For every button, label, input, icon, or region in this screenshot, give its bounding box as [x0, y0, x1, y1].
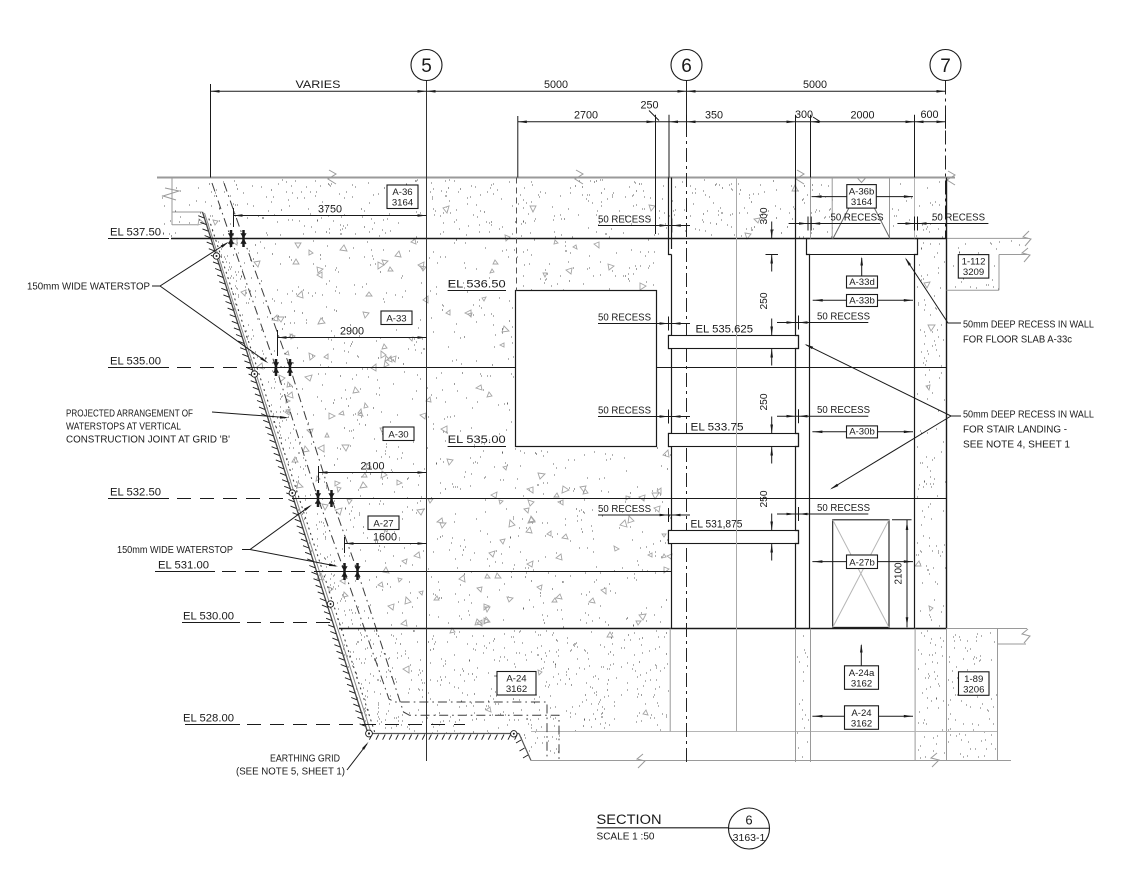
slope hatch ticks — [198, 216, 365, 727]
svg-text:250: 250 — [759, 393, 770, 410]
dim row1 arrows — [211, 90, 220, 93]
ground surface line — [157, 177, 955, 179]
dim row2 ext 796 — [795, 116, 797, 178]
EL 528.00 dash line — [185, 724, 240, 726]
excavation slope main line — [203, 212, 369, 734]
svg-text:A-24: A-24 — [506, 674, 527, 685]
svg-text:50 RECESS: 50 RECESS — [598, 504, 651, 515]
svg-text:50mm DEEP RECESS IN WALL: 50mm DEEP RECESS IN WALL — [963, 320, 1094, 331]
grid line 5 — [426, 81, 428, 762]
svg-text:A-33b: A-33b — [849, 295, 875, 306]
projected waterstop line D1 — [212, 183, 547, 760]
title underline — [597, 827, 729, 829]
tag A-24a 3162 — [845, 666, 879, 690]
dim 300 hook — [813, 117, 820, 122]
dim 2100 — [319, 472, 427, 474]
svg-text:FOR FLOOR SLAB A-33c: FOR FLOOR SLAB A-33c — [963, 335, 1072, 346]
A-27b opening rectangle — [833, 520, 889, 628]
svg-text:A-30: A-30 — [388, 429, 408, 440]
break on EL537.5 ext — [1023, 231, 1031, 246]
svg-text:SCALE 1 :50: SCALE 1 :50 — [597, 832, 655, 843]
dim 300 slab top — [771, 222, 773, 239]
joint circle at slope toe — [366, 730, 373, 737]
svg-text:A-27: A-27 — [373, 518, 393, 529]
grid bubble 6 — [671, 50, 702, 81]
svg-text:50 RECESS: 50 RECESS — [598, 215, 651, 226]
tag 1-112 3209 — [958, 255, 989, 279]
left broken edge vertical — [171, 178, 173, 226]
left bench line upper — [172, 211, 203, 213]
grid bubble 5 — [411, 50, 442, 81]
tag A-27b — [847, 555, 878, 569]
stair landing slab 3 — [669, 531, 799, 544]
tag A-36b 3164 — [847, 185, 877, 209]
EL 530.00 dash line — [182, 622, 240, 624]
dim arrows A-36b — [812, 196, 847, 198]
svg-text:EL 535.00: EL 535.00 — [110, 355, 161, 367]
leader A-33d up-arrow — [861, 258, 863, 276]
svg-text:300: 300 — [759, 207, 770, 224]
right wall B right face — [946, 178, 948, 629]
dim arrows A-27b — [812, 561, 846, 563]
svg-text:2900: 2900 — [340, 326, 364, 338]
beyond joint line in lower walls — [915, 731, 998, 733]
svg-text:50 RECESS: 50 RECESS — [817, 503, 870, 514]
dim 3750 — [234, 215, 427, 217]
soffit reference tick — [766, 254, 779, 256]
joint circle on slope 1 — [213, 253, 219, 259]
svg-text:250: 250 — [640, 100, 658, 112]
svg-text:SEE NOTE 4, SHEET 1: SEE NOTE 4, SHEET 1 — [963, 440, 1070, 451]
A-27b opening diagonals — [833, 520, 889, 628]
top floor slab soffit — [807, 254, 918, 256]
wall opening box — [516, 291, 657, 447]
stair landing slab 1 — [669, 336, 799, 349]
dim 250 leader hook — [649, 111, 659, 121]
leader note floor slab — [906, 259, 961, 323]
base slab top beyond — [531, 731, 998, 733]
svg-text:3162: 3162 — [851, 678, 872, 689]
svg-text:EL 528.00: EL 528.00 — [183, 712, 234, 724]
base step edge — [519, 734, 531, 761]
svg-text:150mm WIDE WATERSTOP: 150mm WIDE WATERSTOP — [117, 545, 233, 556]
svg-text:5000: 5000 — [544, 79, 568, 91]
tag A-33 — [381, 311, 412, 325]
tag A-33d — [847, 276, 878, 288]
dim row2 ext 517.8 — [517, 116, 519, 178]
svg-text:150mm WIDE WATERSTOP: 150mm WIDE WATERSTOP — [27, 282, 150, 293]
svg-text:1-112: 1-112 — [962, 257, 986, 268]
dim row2 ext 669 — [668, 116, 670, 178]
tag A-30b — [847, 426, 878, 438]
dim arrows A-33b — [813, 299, 847, 301]
break on upper stub — [1022, 248, 1030, 262]
middle wall upper left face — [669, 178, 672, 255]
dim arrows A-30b — [812, 431, 846, 433]
dim row2 ext 655.6 — [655, 116, 657, 234]
svg-text:3164: 3164 — [851, 197, 873, 208]
waterstop leader 1a — [152, 243, 227, 286]
right wall B left face — [914, 178, 916, 239]
svg-text:6: 6 — [745, 813, 752, 828]
tag A-24 3162 left — [497, 672, 536, 696]
svg-text:(SEE NOTE 5, SHEET 1): (SEE NOTE 5, SHEET 1) — [236, 767, 345, 778]
svg-text:3164: 3164 — [392, 198, 414, 209]
concrete stipple texture — [162, 180, 833, 237]
svg-text:250: 250 — [759, 490, 770, 507]
right wall A beyond below — [795, 629, 797, 763]
joint circle on slope 2 — [251, 371, 257, 377]
svg-text:1-89: 1-89 — [964, 674, 983, 685]
svg-text:A-33d: A-33d — [849, 277, 875, 288]
svg-text:EL 531.00: EL 531.00 — [158, 559, 209, 571]
svg-text:50 RECESS: 50 RECESS — [817, 405, 870, 416]
leader note stair landing lower — [832, 416, 952, 489]
dim row1 line — [211, 90, 946, 92]
svg-text:A-24a: A-24a — [849, 668, 875, 679]
tag A-27 — [368, 516, 399, 530]
svg-text:3750: 3750 — [318, 204, 342, 216]
base hatch ticks — [369, 735, 517, 740]
svg-text:3162: 3162 — [851, 718, 872, 729]
earthing grid leader — [347, 744, 367, 770]
waterstop symbol 8 — [356, 563, 359, 580]
right wall B beyond below — [946, 628, 948, 760]
EL 537.50 line gray extension — [947, 237, 1029, 239]
grid line 7 — [945, 81, 947, 239]
leader A-24a up-arrow — [860, 645, 862, 666]
svg-text:EARTHING GRID: EARTHING GRID — [270, 754, 340, 765]
ground break symbol 2 — [575, 170, 583, 184]
svg-text:2100: 2100 — [360, 461, 384, 473]
stair edge beyond — [736, 178, 738, 732]
break on base bottom 2 — [931, 753, 939, 767]
dim row2 ext 811 — [810, 116, 812, 178]
svg-text:5000: 5000 — [803, 79, 827, 91]
upper right stub outline — [999, 254, 1027, 256]
hidden edge above opening — [516, 178, 518, 291]
svg-text:600: 600 — [920, 109, 938, 121]
svg-text:50 RECESS: 50 RECESS — [598, 313, 651, 324]
svg-text:A-33: A-33 — [386, 313, 406, 324]
svg-text:50mm DEEP RECESS IN WALL: 50mm DEEP RECESS IN WALL — [963, 410, 1094, 421]
EL 530.00 structural line — [339, 628, 947, 630]
svg-text:50 RECESS: 50 RECESS — [831, 213, 884, 224]
lower right stub outline — [947, 628, 1028, 630]
title circle — [729, 808, 770, 849]
middle wall upper right face — [671, 178, 673, 250]
EL 537.50 line — [108, 238, 169, 240]
base edge line — [368, 733, 519, 735]
tag A-24 3162 right — [845, 706, 879, 730]
waterstop leader 1b — [160, 286, 266, 362]
svg-text:A-36b: A-36b — [849, 187, 875, 198]
svg-text:50 RECESS: 50 RECESS — [817, 312, 870, 323]
ground break symbol 3 — [796, 170, 804, 184]
tag A-36 3164 — [387, 185, 418, 209]
waterstop symbol 5 — [317, 490, 320, 507]
svg-text:EL 530.00: EL 530.00 — [183, 610, 234, 622]
svg-text:2000: 2000 — [850, 110, 874, 122]
left edge break symbol — [163, 188, 179, 200]
waterstop symbol 6 — [330, 490, 333, 507]
break on base bottom 1 — [637, 754, 645, 768]
pocket edge beyond left — [831, 178, 833, 239]
dim 2100 opening — [906, 520, 908, 628]
svg-text:EL 533.75: EL 533.75 — [691, 422, 744, 434]
middle wall edge beyond below — [669, 629, 671, 732]
waterstop symbol 2 — [242, 230, 245, 247]
dim 2900 — [278, 337, 427, 339]
joint circle on slope 3 — [327, 601, 333, 607]
pocket splay left — [833, 208, 849, 239]
waterstop leader 2a — [242, 506, 310, 550]
svg-text:3163-1: 3163-1 — [733, 832, 766, 844]
svg-text:A-27b: A-27b — [849, 557, 875, 568]
projected waterstop line D2 — [224, 183, 559, 760]
svg-text:3206: 3206 — [963, 684, 984, 695]
ground break symbol 4 — [947, 171, 955, 185]
dim row1 ext left — [210, 84, 212, 178]
svg-text:2700: 2700 — [574, 110, 598, 122]
dim row2 ticks — [655, 115, 657, 129]
pocket splay right — [874, 208, 890, 239]
svg-text:7: 7 — [940, 56, 951, 77]
right wall A left face with recesses — [796, 178, 799, 629]
waterstop symbol 4 — [289, 359, 292, 376]
svg-text:EL 532.50: EL 532.50 — [110, 486, 161, 498]
left bench line lower — [172, 224, 198, 226]
grid bubble 7 — [930, 50, 961, 81]
svg-text:EL 537.50: EL 537.50 — [110, 226, 161, 238]
svg-text:250: 250 — [759, 292, 770, 309]
waterstop symbol 1 — [230, 230, 233, 247]
break on lower stub — [1022, 629, 1030, 643]
svg-text:A-36: A-36 — [392, 187, 412, 198]
svg-text:A-30b: A-30b — [849, 427, 875, 438]
pocket edge beyond right — [889, 178, 891, 239]
dotted line along slope — [209, 219, 375, 732]
middle wall face with landing recesses — [669, 255, 672, 629]
svg-text:50 RECESS: 50 RECESS — [932, 213, 985, 224]
waterstop leader 2b — [250, 550, 336, 567]
svg-text:VARIES: VARIES — [296, 79, 341, 91]
right lower wall edge beyond — [997, 629, 999, 761]
svg-text:A-24: A-24 — [851, 708, 872, 719]
excavation slope second line — [205, 213, 372, 734]
right wall A right face — [810, 178, 812, 239]
svg-text:EL 531,875: EL 531,875 — [691, 519, 743, 531]
svg-text:FOR STAIR LANDING -: FOR STAIR LANDING - — [963, 425, 1067, 436]
waterstop symbol 3 — [275, 359, 278, 376]
svg-text:EL 535.625: EL 535.625 — [696, 324, 754, 336]
svg-text:CONSTRUCTION JOINT AT GRID 'B': CONSTRUCTION JOINT AT GRID 'B' — [66, 435, 230, 446]
stair landing slab 2 — [669, 434, 799, 447]
dim row2 ext 914 — [914, 116, 916, 178]
EL 531.00 line — [155, 571, 215, 573]
svg-text:350: 350 — [705, 110, 723, 122]
svg-text:300: 300 — [795, 109, 813, 121]
svg-text:2100: 2100 — [894, 562, 905, 584]
projected arrangement leader — [212, 412, 286, 418]
tag 1-89 3206 — [959, 672, 990, 696]
dim arrows A-24 — [812, 715, 844, 717]
EL 532.50 line — [108, 498, 169, 500]
dim row2 line — [518, 121, 946, 123]
leader note stair landing upper — [806, 345, 961, 416]
svg-text:EL 535.00: EL 535.00 — [448, 434, 506, 446]
pocket top notch — [857, 178, 866, 183]
tag A-33b — [847, 295, 878, 307]
ground break symbol 1 — [328, 170, 336, 184]
svg-text:1600: 1600 — [373, 532, 397, 544]
svg-text:50 RECESS: 50 RECESS — [598, 406, 651, 417]
dim 1600 — [345, 543, 427, 545]
svg-text:EL 536.50: EL 536.50 — [448, 279, 506, 291]
waterstop symbol 7 — [343, 563, 346, 580]
svg-text:WATERSTOPS AT VERTICAL: WATERSTOPS AT VERTICAL — [66, 422, 181, 433]
joint circle on slope 2b — [289, 490, 295, 496]
svg-text:6: 6 — [681, 56, 692, 77]
dim 250 landing 2 — [771, 417, 773, 434]
base step hatch — [516, 740, 528, 758]
grid line 6 — [686, 81, 688, 124]
svg-text:SECTION: SECTION — [597, 812, 662, 828]
tag A-30 — [383, 427, 414, 441]
dim 250 landing 1 — [771, 319, 773, 336]
svg-text:PROJECTED ARRANGEMENT OF: PROJECTED ARRANGEMENT OF — [66, 409, 193, 420]
joint circle on base — [511, 731, 517, 737]
dim row2 arrows — [518, 121, 527, 124]
svg-text:3209: 3209 — [963, 267, 984, 278]
svg-text:3162: 3162 — [506, 684, 527, 695]
EL 535.00 line — [108, 367, 169, 369]
svg-text:5: 5 — [421, 56, 432, 77]
base slab bottom beyond — [531, 760, 1011, 762]
dim 250 landing 3 — [771, 514, 773, 531]
